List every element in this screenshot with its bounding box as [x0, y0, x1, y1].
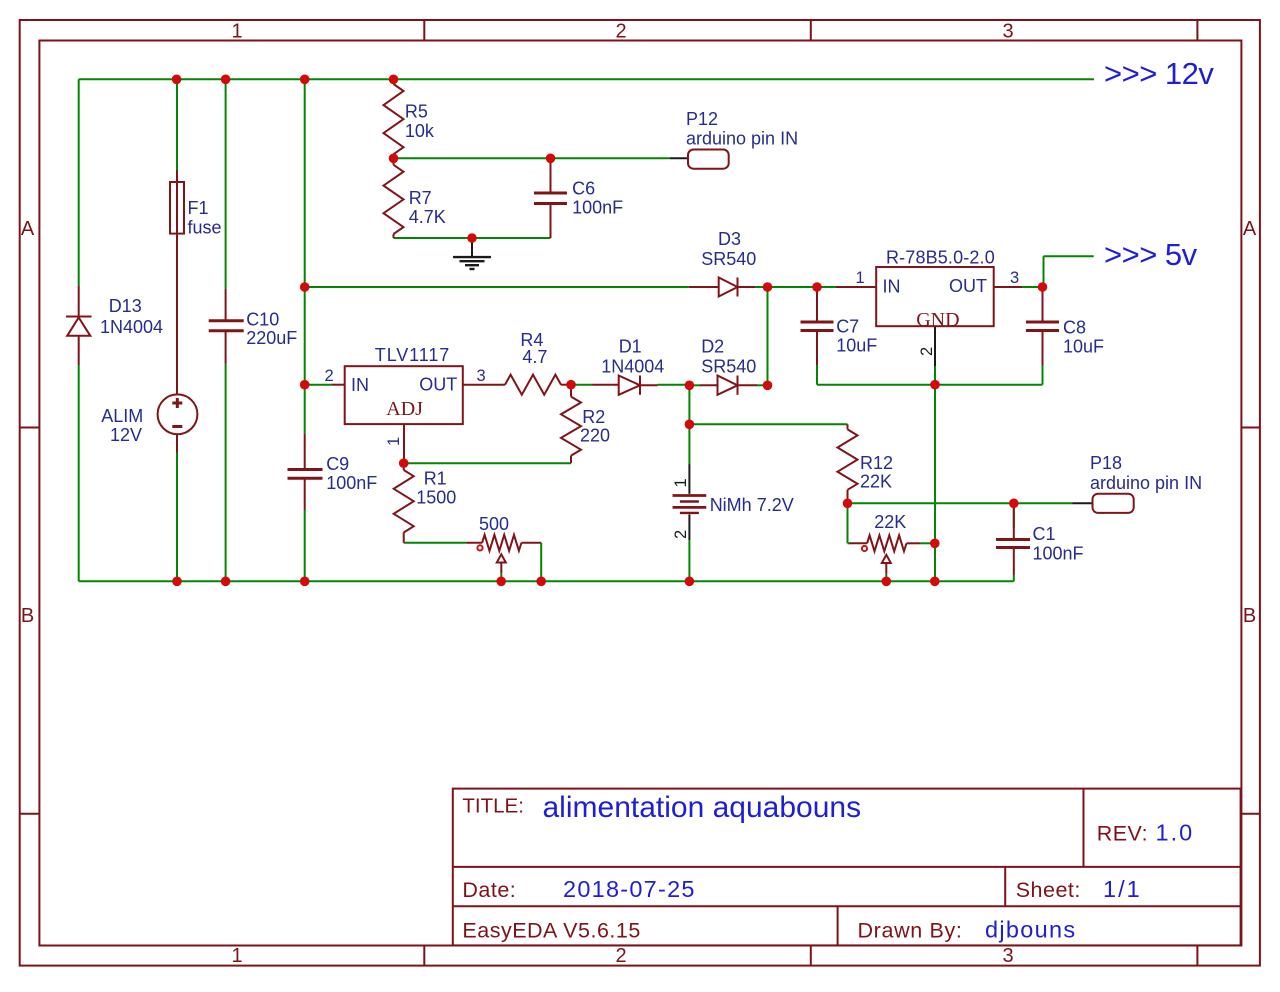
- svg-text:arduino pin IN: arduino pin IN: [686, 129, 798, 149]
- svg-text:B: B: [21, 605, 34, 627]
- svg-text:GND: GND: [916, 309, 959, 331]
- svg-text:alimentation aquabouns: alimentation aquabouns: [543, 791, 862, 824]
- svg-text:R5: R5: [405, 102, 428, 122]
- svg-text:R7: R7: [409, 188, 432, 208]
- svg-text:A: A: [21, 218, 35, 240]
- svg-text:3: 3: [1002, 21, 1013, 43]
- svg-text:NiMh 7.2V: NiMh 7.2V: [710, 495, 794, 515]
- svg-text:1N4004: 1N4004: [601, 357, 664, 377]
- svg-text:2018-07-25: 2018-07-25: [563, 876, 696, 902]
- svg-text:C9: C9: [326, 454, 349, 474]
- svg-text:22K: 22K: [874, 512, 906, 532]
- svg-text:arduino pin IN: arduino pin IN: [1090, 473, 1202, 493]
- svg-text:Date:: Date:: [462, 878, 516, 902]
- svg-text:P12: P12: [686, 109, 718, 129]
- svg-text:2: 2: [325, 367, 334, 385]
- svg-text:R1: R1: [424, 469, 447, 489]
- svg-text:C6: C6: [572, 178, 595, 198]
- svg-text:djbouns: djbouns: [985, 916, 1076, 942]
- svg-text:R-78B5.0-2.0: R-78B5.0-2.0: [886, 248, 995, 268]
- svg-text:IN: IN: [351, 375, 369, 395]
- svg-text:>>> 5v: >>> 5v: [1104, 237, 1198, 272]
- svg-text:C7: C7: [836, 317, 859, 337]
- svg-text:OUT: OUT: [949, 276, 987, 296]
- svg-text:R2: R2: [582, 407, 605, 427]
- svg-text:ALIM: ALIM: [101, 406, 143, 426]
- svg-text:3: 3: [477, 367, 486, 385]
- svg-text:1: 1: [231, 21, 242, 43]
- svg-text:1: 1: [385, 437, 403, 446]
- svg-text:Drawn By:: Drawn By:: [858, 918, 963, 942]
- svg-text:100nF: 100nF: [1033, 544, 1084, 564]
- svg-text:>>> 12v: >>> 12v: [1104, 56, 1214, 91]
- svg-text:C10: C10: [246, 310, 279, 330]
- svg-text:B: B: [1243, 605, 1256, 627]
- svg-text:TITLE:: TITLE:: [462, 794, 524, 817]
- svg-text:IN: IN: [883, 277, 901, 297]
- svg-text:D2: D2: [701, 337, 724, 357]
- svg-text:220: 220: [580, 426, 610, 446]
- svg-text:2: 2: [615, 945, 626, 967]
- svg-text:C1: C1: [1033, 524, 1056, 544]
- svg-text:R12: R12: [860, 453, 893, 473]
- svg-text:P18: P18: [1090, 453, 1122, 473]
- svg-text:22K: 22K: [860, 472, 892, 492]
- svg-text:REV:: REV:: [1097, 822, 1148, 846]
- svg-text:TLV1117: TLV1117: [375, 345, 450, 365]
- svg-text:1500: 1500: [416, 488, 456, 508]
- svg-text:500: 500: [479, 514, 509, 534]
- svg-text:SR540: SR540: [701, 357, 756, 377]
- svg-text:3: 3: [1010, 269, 1019, 287]
- svg-text:3: 3: [1002, 945, 1013, 967]
- svg-text:C8: C8: [1063, 318, 1086, 338]
- svg-text:1: 1: [856, 269, 865, 287]
- svg-text:4.7K: 4.7K: [409, 207, 446, 227]
- svg-text:12V: 12V: [110, 425, 142, 445]
- svg-text:EasyEDA V5.6.15: EasyEDA V5.6.15: [462, 918, 640, 942]
- svg-text:D13: D13: [109, 296, 142, 316]
- svg-text:100nF: 100nF: [572, 197, 623, 217]
- svg-text:D1: D1: [619, 337, 642, 357]
- svg-text:2: 2: [615, 21, 626, 43]
- svg-text:SR540: SR540: [701, 249, 756, 269]
- svg-text:ADJ: ADJ: [386, 398, 423, 420]
- svg-text:fuse: fuse: [188, 218, 222, 238]
- svg-text:2: 2: [918, 347, 936, 356]
- svg-text:100nF: 100nF: [326, 473, 377, 493]
- svg-text:Sheet:: Sheet:: [1016, 878, 1081, 902]
- svg-text:1N4004: 1N4004: [100, 317, 163, 337]
- svg-text:1: 1: [231, 945, 242, 967]
- svg-text:10k: 10k: [405, 121, 435, 141]
- svg-text:D3: D3: [718, 229, 741, 249]
- svg-text:A: A: [1243, 218, 1257, 240]
- svg-text:F1: F1: [188, 198, 209, 218]
- svg-text:220uF: 220uF: [246, 328, 297, 348]
- svg-text:2: 2: [672, 530, 690, 539]
- svg-text:OUT: OUT: [419, 375, 457, 395]
- svg-text:1.0: 1.0: [1156, 820, 1195, 846]
- svg-text:1/1: 1/1: [1103, 876, 1142, 902]
- svg-text:10uF: 10uF: [836, 336, 877, 356]
- svg-text:10uF: 10uF: [1063, 337, 1104, 357]
- svg-text:4.7: 4.7: [522, 347, 547, 367]
- svg-text:1: 1: [672, 478, 690, 487]
